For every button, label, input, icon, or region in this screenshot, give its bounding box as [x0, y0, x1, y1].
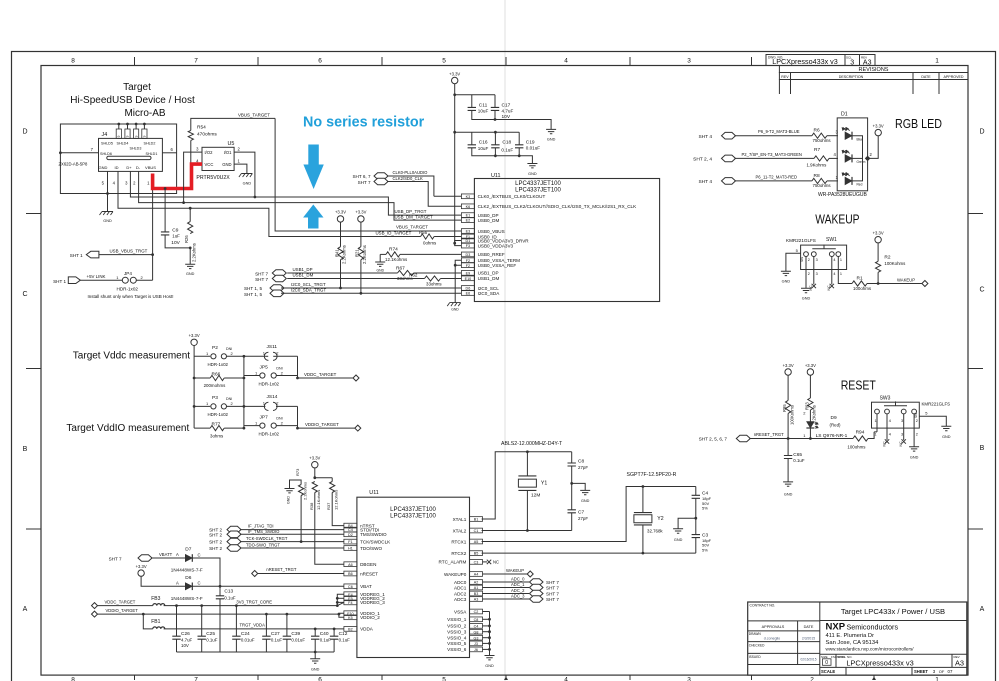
wire JP4 pin2 to VBUS net — [136, 279, 152, 281]
svg-text:B6: B6 — [348, 572, 353, 576]
svg-text:C40: C40 — [320, 631, 329, 637]
svg-text:USB0_VDDA3V3: USB0_VDDA3V3 — [478, 243, 514, 248]
junction C8 bottom — [570, 482, 573, 485]
wire rail to P2 — [194, 355, 210, 357]
ground U5 — [239, 174, 253, 186]
svg-text:2: 2 — [808, 272, 810, 276]
svg-text:2: 2 — [808, 258, 810, 262]
column ticks bottom — [135, 675, 877, 680]
capacitor C4 18pF — [692, 487, 712, 519]
junction C17 bottom — [494, 118, 497, 121]
svg-text:A6: A6 — [348, 563, 353, 567]
svg-text:3: 3 — [901, 419, 903, 423]
svg-text:+3.3V: +3.3V — [805, 363, 816, 368]
svg-text:7: 7 — [194, 58, 198, 65]
svg-text:A4: A4 — [474, 573, 479, 577]
resistor R41 2.2Kohms — [334, 222, 346, 264]
no-connect SW3 pin4 — [883, 414, 891, 447]
annotation blue arrow down — [303, 145, 323, 190]
svg-text:8: 8 — [71, 677, 75, 681]
wire C9 top — [164, 189, 166, 232]
svg-text:Target Vddc measurement: Target Vddc measurement — [73, 350, 191, 361]
connector J4 shield outline — [60, 124, 176, 194]
sheet flag SHT 2 TCK — [209, 538, 241, 545]
resistor R94 100ohms — [847, 430, 868, 450]
svg-text:SW3: SW3 — [880, 396, 891, 402]
wire C16 C18 C19 bottom to gnd — [472, 148, 533, 164]
svg-text:TDO-SWO_TRGT: TDO-SWO_TRGT — [246, 542, 280, 547]
sheet flag SHT 2,4 green — [693, 155, 735, 162]
wire USB1_DM — [287, 273, 424, 279]
ground C11 C17 — [546, 129, 556, 141]
junction Y2 top — [642, 485, 645, 488]
capacitor C16 — [468, 140, 489, 151]
svg-text:RTC_ALARM: RTC_ALARM — [439, 560, 467, 565]
svg-text:LPC4337JET100: LPC4337JET100 — [390, 507, 436, 513]
svg-text:C1: C1 — [474, 529, 479, 533]
svg-text:J4: J4 — [102, 132, 108, 138]
wire VDDC_TARGET to FB3 — [98, 599, 153, 605]
svg-text:3: 3 — [816, 272, 818, 276]
junction C4 bottom — [694, 517, 697, 520]
wire C13 bottom — [219, 599, 221, 652]
wire TRGT_VDDA row — [164, 623, 344, 629]
wire R94 to SW3 — [868, 432, 874, 439]
switch SW3 KMR221GLFS — [872, 396, 951, 429]
junction USB_VBUS_TRGT — [151, 253, 154, 256]
net label USB_DM_TARGET — [395, 214, 434, 219]
svg-text:10V: 10V — [181, 643, 189, 648]
svg-text:0.1uF: 0.1uF — [224, 596, 236, 601]
svg-text:GND: GND — [451, 307, 459, 311]
wire SW3 pin2 gnd — [914, 414, 918, 447]
svg-text:9: 9 — [117, 135, 121, 137]
wire 3V3_TRGT_CORE — [164, 599, 338, 605]
svg-text:+3.3V: +3.3V — [136, 564, 147, 569]
wire R73 to TCK — [300, 496, 302, 542]
svg-text:7: 7 — [194, 677, 198, 681]
junction pin5 shield — [106, 192, 109, 195]
svg-text:C13: C13 — [224, 588, 233, 594]
svg-text:C24: C24 — [241, 631, 250, 637]
junction Y1 top — [526, 450, 529, 453]
svg-text:WR-PA3528UEUGUB: WR-PA3528UEUGUB — [818, 192, 867, 198]
junction C9 on red net — [164, 187, 167, 190]
terminal VDDIO diamond — [355, 425, 361, 431]
svg-text:I2C0_SDA_TRGT: I2C0_SDA_TRGT — [291, 288, 326, 293]
connector J4 pin 7 — [59, 147, 99, 154]
svg-text:R38: R38 — [309, 502, 314, 510]
svg-text:A: A — [176, 580, 179, 585]
svg-text:SHT 2: SHT 2 — [209, 532, 222, 537]
ground VSSA — [447, 303, 461, 312]
wire I2C0_SCL — [281, 282, 462, 288]
svg-text:VDDIO_TARGET: VDDIO_TARGET — [106, 608, 139, 613]
svg-text:www.standardics.nxp.com/microc: www.standardics.nxp.com/microcontrollers… — [826, 647, 915, 652]
svg-text:F2: F2 — [466, 259, 470, 263]
junction R95 node — [787, 437, 790, 440]
ground Y2 — [673, 529, 683, 542]
section title WAKEUP — [815, 213, 859, 227]
svg-text:E6: E6 — [466, 292, 471, 296]
svg-text:VSSIO_2: VSSIO_2 — [447, 624, 467, 629]
svg-text:JP4: JP4 — [124, 271, 132, 276]
svg-text:SHT 7: SHT 7 — [255, 277, 268, 282]
ground C16 C18 C19 — [527, 164, 537, 176]
wire R38 to DBGEN — [315, 493, 344, 565]
svg-text:U11: U11 — [369, 490, 379, 496]
svg-text:VDDIO_TARGET: VDDIO_TARGET — [305, 422, 339, 427]
capacitor C40 — [311, 628, 331, 653]
svg-text:P2_7/SP_EN-T3_MAT3-GREEN: P2_7/SP_EN-T3_MAT3-GREEN — [742, 152, 802, 157]
svg-text:GND: GND — [910, 456, 919, 460]
svg-text:10uF: 10uF — [478, 109, 489, 114]
svg-text:0.1uF: 0.1uF — [793, 458, 805, 463]
junction WAKEUP node — [877, 282, 880, 285]
svg-text:R1: R1 — [857, 276, 863, 282]
svg-text:SHT 1: SHT 1 — [70, 253, 83, 258]
svg-text:ADC3: ADC3 — [454, 597, 467, 602]
power +3.3V LED — [873, 123, 884, 135]
resistor R54 — [188, 125, 217, 141]
junction Y2 bottom — [642, 552, 645, 555]
svg-text:GND: GND — [186, 272, 195, 276]
sheet flag SHT 2,5,6,7 nRESET — [699, 435, 751, 442]
svg-text:0.1uF: 0.1uF — [501, 148, 513, 153]
svg-text:5: 5 — [442, 58, 446, 65]
svg-text:0.1uF: 0.1uF — [320, 637, 332, 642]
wire net USB_ID — [118, 171, 421, 236]
svg-text:4.7uF: 4.7uF — [181, 637, 193, 642]
wire gnd stem — [314, 652, 316, 659]
U11 bottom right pins — [439, 517, 483, 653]
svg-text:XTAL2: XTAL2 — [453, 528, 467, 533]
wire USB1_DP — [287, 267, 397, 273]
svg-text:TCK-SWDCLK_TRGT: TCK-SWDCLK_TRGT — [246, 536, 288, 541]
junction VDDREG — [336, 597, 339, 607]
svg-text:100ohms: 100ohms — [853, 286, 872, 291]
net label VBUS_TARGET — [238, 112, 270, 117]
svg-text:USB1_DP: USB1_DP — [293, 267, 313, 272]
svg-text:0ohms: 0ohms — [423, 240, 437, 245]
svg-text:0.1uF: 0.1uF — [206, 637, 218, 642]
svg-text:VBUS_TARGET: VBUS_TARGET — [396, 225, 428, 230]
wire WAKEUP0 — [483, 568, 528, 574]
wire C4 gnd branch — [678, 518, 696, 529]
wire SW3 pin1 — [874, 414, 877, 437]
sheet flag SHT 7 ADC0 — [530, 579, 560, 585]
svg-text:4: 4 — [833, 258, 835, 262]
sheet flag SHT 7 ADC2 — [530, 590, 560, 596]
wire R1 to WAKEUP node — [867, 283, 922, 285]
svg-text:DATE: DATE — [921, 75, 931, 79]
wire R6 to led — [827, 130, 839, 136]
svg-text:ID: ID — [115, 165, 119, 170]
wire nRESET_TRGT — [258, 567, 344, 573]
svg-text:SHT 1: SHT 1 — [53, 279, 66, 284]
terminal VDDIO diamond 2 — [92, 611, 98, 617]
power +3.3V R2 — [873, 231, 884, 243]
junction gnd bus — [314, 651, 317, 654]
wire LED cathode rail — [852, 136, 863, 181]
svg-text:Y1: Y1 — [541, 481, 547, 487]
resistor R77 3ohms — [194, 422, 244, 439]
svg-text:A5: A5 — [474, 540, 479, 544]
svg-text:GND: GND — [802, 297, 811, 301]
svg-text:VSSIO_1: VSSIO_1 — [447, 617, 467, 622]
svg-text:GND: GND — [581, 499, 590, 503]
svg-text:GND: GND — [311, 668, 320, 672]
capacitor C12 — [330, 628, 350, 653]
junction C19 bottom — [518, 154, 521, 157]
capacitor C24 — [232, 604, 255, 652]
svg-text:SHEET: SHEET — [914, 669, 928, 674]
svg-text:VBAT: VBAT — [360, 584, 372, 589]
wire D7 cathode — [192, 558, 220, 586]
svg-text:12.1Kohms: 12.1Kohms — [385, 257, 408, 262]
wire CLK0-PLL0AUDIO — [387, 170, 434, 197]
svg-text:C: C — [979, 287, 984, 294]
svg-text:SIZE: SIZE — [821, 655, 828, 659]
svg-text:CLK0_/EXTBUS_CLK0/CLKOUT: CLK0_/EXTBUS_CLK0/CLKOUT — [478, 194, 546, 199]
svg-text:C2: C2 — [474, 610, 479, 614]
svg-text:27pF: 27pF — [578, 465, 588, 470]
svg-text:NC: NC — [883, 441, 887, 447]
wire measurement 3.3V rail — [193, 346, 195, 429]
svg-text:GND: GND — [784, 493, 793, 497]
svg-text:F2: F2 — [466, 264, 470, 268]
wire I2C0_SDA — [281, 288, 462, 294]
wire IF_TMS_SWDIO — [240, 529, 344, 534]
svg-text:VDDA: VDDA — [360, 627, 374, 632]
sheet flag SHT 1 +5V LINK — [53, 277, 80, 284]
wire green net — [735, 152, 815, 158]
svg-text:SCALE: SCALE — [821, 669, 835, 674]
ground SW1 pin2 — [801, 288, 811, 300]
svg-text:USB0_VBUS: USB0_VBUS — [478, 229, 505, 234]
svg-text:3: 3 — [687, 58, 691, 65]
svg-text:No series resistor: No series resistor — [303, 114, 424, 131]
svg-text:R93: R93 — [804, 402, 809, 410]
svg-text:R37: R37 — [326, 502, 331, 510]
power +3.3V D9 — [805, 363, 816, 375]
svg-text:San Jose, CA 95134: San Jose, CA 95134 — [826, 640, 880, 646]
resistor R56 0ohms — [419, 230, 437, 245]
svg-text:0.01uF: 0.01uF — [241, 637, 255, 642]
svg-text:JS14: JS14 — [267, 394, 278, 400]
svg-text:+5V LINK: +5V LINK — [87, 274, 106, 279]
capacitor C9 — [161, 228, 181, 246]
wire VSSIO_4 — [483, 636, 491, 639]
sheet flag SHT 2 TMS — [209, 531, 241, 538]
svg-text:VSSIO_6: VSSIO_6 — [447, 647, 467, 652]
svg-text:R56: R56 — [419, 230, 428, 235]
svg-text:SHT 2, 5, 6, 7: SHT 2, 5, 6, 7 — [699, 437, 728, 442]
led D9 red — [803, 410, 847, 439]
connector J4 part number ZX62D-AB-5P8 — [59, 162, 89, 167]
sheet flag SHT 6,7 CLK0 — [352, 173, 388, 180]
svg-text:R95: R95 — [782, 404, 787, 412]
svg-text:9: 9 — [126, 135, 130, 137]
svg-text:6: 6 — [318, 58, 322, 65]
resistor R95 100Kohms — [782, 375, 794, 425]
svg-text:R41: R41 — [334, 249, 339, 257]
junction C16 rail — [453, 131, 456, 134]
svg-text:2.2Kohms: 2.2Kohms — [302, 482, 307, 500]
junction mid rail R77 — [243, 427, 246, 430]
top title box rev — [860, 55, 876, 67]
svg-text:100Kohms: 100Kohms — [789, 405, 794, 425]
ground J4 pin5 — [100, 212, 114, 224]
row ticks right — [968, 214, 983, 530]
svg-text:+3.3V: +3.3V — [873, 231, 884, 236]
junction R26 C9 — [189, 247, 192, 250]
svg-text:Red: Red — [857, 183, 863, 187]
svg-text:U5: U5 — [228, 141, 235, 147]
row letters right — [979, 129, 984, 614]
svg-text:USB_VBUS_TRGT: USB_VBUS_TRGT — [110, 249, 148, 254]
header JP7 — [244, 414, 298, 436]
svg-text:D1: D1 — [841, 112, 848, 118]
junction R38 top — [313, 476, 316, 479]
svg-text:3V3_TRGT_CORE: 3V3_TRGT_CORE — [236, 599, 272, 604]
junction mid rail R66 — [243, 377, 246, 380]
svg-text:A3: A3 — [955, 659, 964, 668]
U11 bottom left pins — [344, 523, 391, 631]
resistor R67 33ohms — [396, 266, 414, 281]
svg-text:SHT 7: SHT 7 — [255, 272, 268, 277]
svg-text:R73: R73 — [295, 468, 300, 476]
svg-text:NC: NC — [809, 285, 813, 291]
svg-text:NC: NC — [827, 285, 831, 291]
svg-text:WAKEUP0: WAKEUP0 — [444, 572, 467, 577]
ground VSSIO — [485, 649, 495, 668]
resistor R7 1.9Kohms — [807, 147, 830, 167]
wire blue net — [735, 129, 812, 136]
diode D7 1N4448WS-7-F — [171, 547, 203, 573]
wire SW1 pin5 to gnd — [786, 248, 801, 271]
svg-text:ADC2: ADC2 — [454, 591, 467, 596]
svg-text:I/O2: I/O2 — [205, 150, 214, 155]
svg-text:J3: J3 — [474, 642, 478, 646]
svg-text:OF: OF — [939, 669, 945, 674]
junction VBAT C13 — [219, 585, 222, 588]
junction R21 SDA — [360, 292, 363, 295]
svg-text:02/16/2015: 02/16/2015 — [801, 657, 817, 661]
wire VSSA pins to gnd — [455, 260, 461, 302]
svg-text:SHT 7: SHT 7 — [546, 597, 559, 602]
svg-text:0.01uF: 0.01uF — [526, 146, 540, 151]
svg-text:SHLD2: SHLD2 — [144, 142, 156, 146]
junction VDDA rail — [453, 242, 456, 245]
svg-text:IF_TMS_SWDIO: IF_TMS_SWDIO — [248, 529, 280, 534]
svg-text:R54: R54 — [197, 125, 206, 131]
wire net USB_DM — [139, 171, 462, 220]
terminal nRESET_TRGT diamond — [252, 571, 258, 577]
svg-text:750ohms: 750ohms — [813, 138, 832, 143]
svg-text:CONTRACT NO.: CONTRACT NO. — [750, 604, 776, 608]
wire net VBUS_TARGET to U11 — [275, 118, 461, 231]
part number ABLS2 — [501, 441, 563, 447]
svg-text:2: 2 — [916, 419, 918, 423]
IC U11 LPC4337JET100 bottom block — [357, 490, 470, 657]
wire VDDREG fanout — [337, 594, 344, 605]
svg-text:TRGT_VDDA: TRGT_VDDA — [240, 623, 266, 628]
svg-text:5: 5 — [442, 677, 446, 681]
sheet flag SHT 7 CLK2 — [358, 178, 388, 185]
wire VDDC_TARGET — [298, 376, 354, 379]
row ticks left — [26, 214, 41, 530]
svg-text:SGPT7F-12.5PF20-R: SGPT7F-12.5PF20-R — [627, 472, 677, 478]
svg-text:F3: F3 — [466, 244, 470, 248]
svg-text:VDDIO_2: VDDIO_2 — [360, 615, 380, 620]
svg-text:4: 4 — [889, 419, 891, 423]
svg-text:USB1_DP: USB1_DP — [478, 271, 499, 276]
svg-text:U11: U11 — [491, 173, 501, 179]
svg-text:SHT 6, 7: SHT 6, 7 — [352, 174, 370, 179]
svg-text:DESCRIPTION: DESCRIPTION — [839, 75, 864, 79]
svg-text:HDR-1x02: HDR-1x02 — [259, 381, 280, 386]
wire USB_VBUS_TRGT — [99, 249, 153, 255]
svg-text:3ohms: 3ohms — [210, 433, 224, 438]
svg-text:G8: G8 — [474, 630, 479, 634]
note install shunt — [88, 294, 174, 299]
svg-text:VBUS_TARGET: VBUS_TARGET — [238, 112, 270, 117]
svg-text:P6_9-T2_MAT3-BLUE: P6_9-T2_MAT3-BLUE — [758, 129, 800, 134]
svg-text:JS11: JS11 — [267, 344, 278, 350]
wire C11 C17 top — [455, 95, 495, 108]
svg-text:Install shunt only when Target: Install shunt only when Target is USB Ho… — [88, 294, 174, 299]
wire R21 to SDA — [360, 260, 362, 294]
TVS diode U5 PRTR5V0U2X — [196, 141, 240, 181]
wire net USB_DP — [130, 171, 461, 215]
svg-text:1uF: 1uF — [172, 234, 180, 239]
column numbers top — [71, 58, 939, 65]
jumper JP4 HDR-1x02 — [116, 271, 143, 291]
red highlighted wire VBUS to VCC — [153, 164, 202, 188]
LED array D1 box — [837, 112, 867, 191]
svg-text:B: B — [980, 445, 985, 452]
svg-text:1: 1 — [875, 433, 877, 437]
svg-text:VDDREG_3: VDDREG_3 — [360, 600, 385, 605]
svg-text:SHLD3: SHLD3 — [130, 147, 142, 151]
junction R41 SCL — [339, 287, 342, 290]
svg-text:32.768k: 32.768k — [647, 529, 663, 534]
capacitor C39 — [283, 613, 306, 652]
sheet flag SHT 4 red — [698, 178, 735, 185]
svg-text:PRTR5V0U2X: PRTR5V0U2X — [196, 175, 230, 181]
power +3.3V top — [449, 71, 460, 83]
sheet flag SHT 7 USB1_DP — [255, 270, 286, 277]
svg-text:C17: C17 — [502, 102, 511, 108]
svg-text:D-: D- — [136, 165, 141, 170]
svg-text:RTCX1: RTCX1 — [451, 539, 466, 544]
svg-text:R6: R6 — [814, 128, 820, 134]
header P3 — [194, 395, 244, 417]
svg-text:FB3: FB3 — [151, 596, 160, 602]
svg-text:VSSIO_4: VSSIO_4 — [447, 636, 467, 641]
svg-text:Target: Target — [123, 82, 151, 93]
svg-text:RGB LED: RGB LED — [895, 117, 942, 131]
top title box DWG NO — [766, 55, 845, 67]
svg-text:C27: C27 — [271, 631, 280, 637]
net label VDDC_TARGET — [304, 372, 337, 377]
svg-text:USB0_RREF: USB0_RREF — [478, 252, 505, 257]
sheet flag SHT 2 TDO — [209, 545, 241, 552]
svg-text:SHLD4: SHLD4 — [117, 142, 129, 146]
connector J4 body — [99, 132, 163, 171]
wire R26 bottom to GND — [189, 248, 191, 264]
